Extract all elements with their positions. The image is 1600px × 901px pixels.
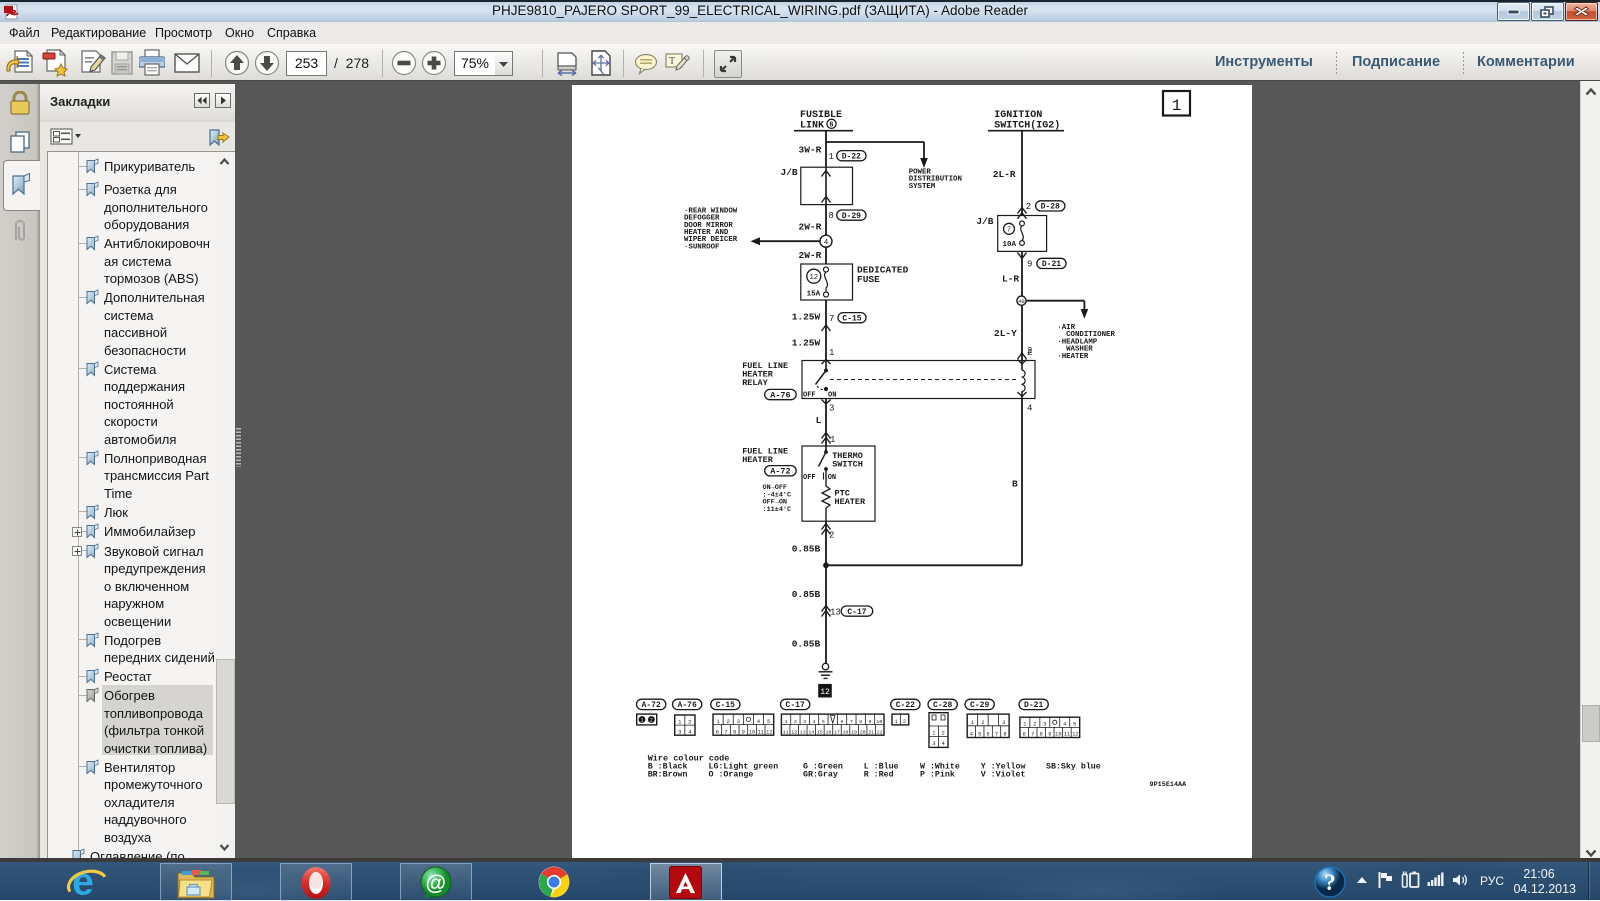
svg-text:4: 4 <box>1063 722 1066 728</box>
svg-text:11: 11 <box>783 729 789 735</box>
svg-text:LINK: LINK <box>800 120 824 131</box>
svg-text:D-22: D-22 <box>842 152 861 161</box>
svg-text:40: 40 <box>1018 299 1024 305</box>
svg-text:2: 2 <box>688 718 691 725</box>
svg-text:6: 6 <box>829 122 833 130</box>
svg-text:5: 5 <box>767 719 770 725</box>
svg-text::11±4′C: :11±4′C <box>763 506 792 514</box>
svg-text:15: 15 <box>817 729 823 735</box>
svg-text:3: 3 <box>1043 722 1046 728</box>
svg-text:P :Pink: P :Pink <box>920 769 955 779</box>
svg-text:2: 2 <box>1027 346 1032 356</box>
svg-text:2W-R: 2W-R <box>799 222 822 233</box>
svg-text:2L-Y: 2L-Y <box>994 328 1017 339</box>
svg-text:4: 4 <box>813 719 816 725</box>
svg-text:OFF: OFF <box>803 392 816 400</box>
svg-text:7: 7 <box>829 314 834 324</box>
svg-text:22: 22 <box>877 729 883 735</box>
svg-text:4: 4 <box>824 239 829 247</box>
svg-text:3: 3 <box>737 719 740 725</box>
svg-text:6: 6 <box>1023 732 1026 738</box>
svg-text:D-21: D-21 <box>1042 260 1061 269</box>
svg-text:0.85B: 0.85B <box>792 639 821 650</box>
svg-text:7: 7 <box>850 719 853 725</box>
svg-text:1: 1 <box>1172 97 1182 115</box>
svg-text:7: 7 <box>1007 227 1011 235</box>
svg-text:18: 18 <box>843 729 849 735</box>
svg-text:5: 5 <box>1073 722 1076 728</box>
svg-text:1: 1 <box>830 435 835 445</box>
svg-text:4: 4 <box>970 732 973 738</box>
svg-text:3: 3 <box>678 728 681 735</box>
svg-text:O :Orange: O :Orange <box>709 770 754 779</box>
svg-text:R :Red: R :Red <box>864 769 894 779</box>
svg-text:1: 1 <box>1023 722 1026 728</box>
svg-text:2: 2 <box>829 531 834 541</box>
svg-text:C-29: C-29 <box>970 701 989 710</box>
svg-text:3: 3 <box>829 404 834 414</box>
svg-text:OFF: OFF <box>803 474 816 482</box>
svg-text:BR:Brown: BR:Brown <box>648 770 688 779</box>
svg-text:6: 6 <box>716 729 719 735</box>
svg-text:ON: ON <box>828 392 836 400</box>
svg-text:10: 10 <box>749 729 755 735</box>
svg-text:D-29: D-29 <box>842 212 861 221</box>
svg-text:3: 3 <box>1002 720 1005 726</box>
svg-text:L: L <box>816 415 822 426</box>
svg-text:HEATER: HEATER <box>835 497 867 507</box>
svg-text:1: 1 <box>829 348 834 358</box>
svg-text:RELAY: RELAY <box>742 378 768 388</box>
svg-text:10: 10 <box>1055 732 1061 738</box>
svg-text:C-17: C-17 <box>847 608 866 617</box>
svg-text:A-76: A-76 <box>770 390 790 400</box>
svg-text:1: 1 <box>971 720 974 726</box>
svg-text:J/B: J/B <box>976 216 993 227</box>
svg-text:2: 2 <box>1033 722 1036 728</box>
svg-text:21: 21 <box>868 729 874 735</box>
svg-text:1.25W: 1.25W <box>792 311 821 322</box>
svg-text:1: 1 <box>716 719 719 725</box>
svg-text:10: 10 <box>876 719 882 725</box>
svg-text:?: ? <box>1324 870 1336 895</box>
svg-text:SWITCH: SWITCH <box>832 460 863 470</box>
svg-text:12: 12 <box>766 729 772 735</box>
svg-text:2: 2 <box>727 719 730 725</box>
svg-text:C-15: C-15 <box>842 314 861 323</box>
svg-text:12: 12 <box>820 688 830 697</box>
svg-text:20: 20 <box>860 729 866 735</box>
svg-text:9: 9 <box>742 729 745 735</box>
svg-text:·SUNROOF: ·SUNROOF <box>684 243 719 251</box>
svg-text:12: 12 <box>791 729 797 735</box>
svg-text:V :Violet: V :Violet <box>981 769 1026 779</box>
svg-text:4: 4 <box>942 741 945 747</box>
svg-text:@: @ <box>426 872 446 895</box>
svg-text:15A: 15A <box>807 291 821 299</box>
svg-text:8: 8 <box>1040 732 1043 738</box>
svg-text:13: 13 <box>830 608 841 618</box>
svg-text:1: 1 <box>785 719 788 725</box>
svg-text:13: 13 <box>800 729 806 735</box>
svg-text:T: T <box>669 56 675 67</box>
svg-text:1: 1 <box>895 719 898 725</box>
svg-text:2L-R: 2L-R <box>993 169 1016 180</box>
svg-text:SB:Sky blue: SB:Sky blue <box>1046 762 1101 772</box>
svg-text:SWITCH(IG2): SWITCH(IG2) <box>994 119 1060 131</box>
svg-text:8: 8 <box>829 211 834 221</box>
svg-text:1: 1 <box>829 152 834 162</box>
svg-text:9: 9 <box>1027 260 1032 270</box>
svg-text:4: 4 <box>1027 404 1032 414</box>
svg-text:7: 7 <box>995 732 998 738</box>
svg-text:8: 8 <box>1003 732 1006 738</box>
svg-text:11: 11 <box>758 729 764 735</box>
svg-text:8: 8 <box>733 729 736 735</box>
svg-text:9: 9 <box>1048 732 1051 738</box>
svg-text:14: 14 <box>808 729 814 735</box>
svg-text:C-15: C-15 <box>716 701 735 710</box>
svg-text:SYSTEM: SYSTEM <box>909 183 936 191</box>
svg-text:2: 2 <box>794 719 797 725</box>
svg-text:12: 12 <box>809 274 818 282</box>
svg-text:1: 1 <box>640 718 643 724</box>
svg-text:6: 6 <box>841 719 844 725</box>
svg-text:2: 2 <box>1026 202 1031 212</box>
svg-text:2W-R: 2W-R <box>799 250 822 261</box>
svg-text:12: 12 <box>1072 732 1078 738</box>
svg-text:A-72: A-72 <box>770 467 790 477</box>
svg-text:7: 7 <box>1031 732 1034 738</box>
svg-text:C-28: C-28 <box>933 701 952 710</box>
svg-text:6: 6 <box>987 732 990 738</box>
svg-text:0.85B: 0.85B <box>792 589 821 600</box>
svg-text:e: e <box>72 863 94 900</box>
svg-text:2: 2 <box>903 719 906 725</box>
svg-text:11: 11 <box>1064 732 1070 738</box>
svg-text:3W-R: 3W-R <box>799 145 822 156</box>
svg-text:3: 3 <box>932 741 935 747</box>
svg-text:A-72: A-72 <box>642 701 661 710</box>
svg-text:J/B: J/B <box>781 167 798 178</box>
svg-text:·HEATER: ·HEATER <box>1057 353 1089 361</box>
svg-text:16: 16 <box>825 729 831 735</box>
svg-text:1: 1 <box>932 731 935 737</box>
svg-text:2: 2 <box>981 720 984 726</box>
svg-text:10A: 10A <box>1003 241 1017 249</box>
svg-text:5: 5 <box>978 732 981 738</box>
svg-text:2: 2 <box>942 731 945 737</box>
svg-text:C-22: C-22 <box>896 701 915 710</box>
svg-text:1.25W: 1.25W <box>792 337 821 348</box>
svg-text:3: 3 <box>803 719 806 725</box>
svg-text:ON: ON <box>828 474 836 482</box>
svg-text:A-76: A-76 <box>678 701 697 710</box>
svg-text:7: 7 <box>724 729 727 735</box>
svg-text:GR:Gray: GR:Gray <box>803 770 838 779</box>
svg-text:9: 9 <box>869 719 872 725</box>
svg-text:D-28: D-28 <box>1041 203 1060 212</box>
svg-text:8: 8 <box>859 719 862 725</box>
svg-text:19: 19 <box>851 729 857 735</box>
svg-text:B: B <box>1012 479 1018 490</box>
svg-text:L-R: L-R <box>1002 274 1019 285</box>
svg-text:HEATER: HEATER <box>742 455 774 465</box>
svg-text:D-21: D-21 <box>1024 701 1043 710</box>
svg-text:9P15E14AA: 9P15E14AA <box>1150 781 1188 789</box>
svg-text:FUSE: FUSE <box>857 274 880 285</box>
svg-text:17: 17 <box>834 729 840 735</box>
svg-text:0.85B: 0.85B <box>792 544 821 555</box>
svg-text:2: 2 <box>650 718 653 724</box>
svg-text:C-17: C-17 <box>786 701 805 710</box>
svg-text:5: 5 <box>822 719 825 725</box>
svg-text:4: 4 <box>757 719 760 725</box>
